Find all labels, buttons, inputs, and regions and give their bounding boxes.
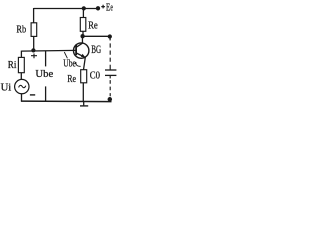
svg-text:e: e	[110, 1, 113, 13]
svg-text:Re: Re	[67, 74, 76, 85]
svg-text:BG: BG	[91, 44, 101, 56]
svg-text:Ri: Ri	[8, 59, 17, 71]
svg-text:Ube: Ube	[63, 58, 76, 70]
svg-text:C0: C0	[90, 71, 100, 82]
svg-text:Re: Re	[88, 20, 98, 32]
svg-text:Ui: Ui	[1, 83, 12, 94]
svg-text:Ube: Ube	[35, 69, 53, 80]
svg-text:Rb: Rb	[16, 23, 26, 35]
